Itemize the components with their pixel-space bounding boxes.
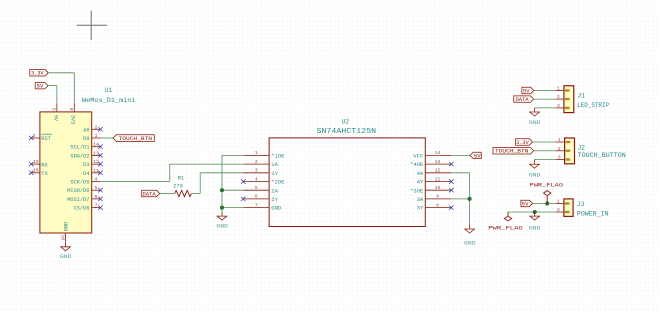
svg-text:SCL/D1: SCL/D1 — [70, 145, 89, 151]
U1 pin 2 (A0) — [83, 124, 102, 133]
junction on J3 pin1 wire — [545, 201, 549, 205]
svg-text:8: 8 — [436, 202, 439, 208]
J1 pin 2 — [555, 94, 564, 100]
wire DATA label to J1 pin 2 — [534, 98, 555, 100]
svg-text:CS/D8: CS/D8 — [74, 206, 90, 212]
svg-text:LED_STRIP: LED_STRIP — [577, 102, 609, 109]
U2 pin 1 (*1OE) — [243, 150, 285, 159]
svg-text:TX: TX — [41, 171, 48, 177]
global label DATA (R1) — [142, 190, 160, 197]
svg-text:6: 6 — [255, 194, 258, 200]
svg-text:2: 2 — [557, 94, 560, 100]
svg-text:2: 2 — [95, 124, 98, 130]
svg-text:5V: 5V — [523, 88, 530, 94]
wire U2 *1OE to ground rail — [222, 155, 243, 211]
svg-text:D3: D3 — [83, 162, 89, 168]
power label 3.3V (U1) — [30, 70, 49, 77]
J2 pin 1 — [556, 137, 565, 143]
junction on J3 pin2 wire — [533, 210, 537, 214]
svg-text:2: 2 — [558, 146, 561, 152]
U1 pin 6 (MOSI/D7) — [67, 194, 102, 203]
wire 5V label to J1 pin 1 — [534, 90, 555, 92]
ground symbol below U2 right rail — [465, 225, 475, 233]
J3 pin 1 — [556, 199, 564, 205]
svg-text:*1OE: *1OE — [271, 153, 285, 160]
svg-text:GND: GND — [529, 226, 541, 232]
connector J1 body — [564, 86, 574, 113]
J2 value TOUCH_BUTTON — [578, 152, 627, 159]
R1 value 279 — [173, 183, 183, 189]
wire TOUCH_BTN label to J2 pin 2 — [534, 150, 556, 152]
wire U2 4A down to ground — [451, 173, 469, 225]
U1 pin 7 (CS/D8) — [74, 203, 103, 212]
svg-text:2A: 2A — [271, 187, 278, 194]
svg-text:8: 8 — [69, 108, 75, 111]
J2 pin 3 — [556, 155, 565, 161]
svg-text:WeMos_D1_mini: WeMos_D1_mini — [82, 97, 136, 104]
junction at 3A rail — [468, 197, 472, 201]
ground symbol below J2 — [530, 160, 540, 169]
resistor R1 — [175, 190, 192, 196]
svg-text:TOUCH_BTN: TOUCH_BTN — [495, 149, 529, 155]
power port GND (J1) — [529, 120, 541, 126]
svg-text:2: 2 — [255, 159, 258, 165]
power port GND (J3) — [529, 226, 541, 232]
svg-text:1A: 1A — [271, 161, 278, 168]
svg-text:D0: D0 — [83, 136, 89, 142]
ground symbol below U1 — [61, 242, 71, 251]
svg-text:10: 10 — [60, 235, 66, 241]
svg-text:U1: U1 — [105, 87, 113, 94]
svg-text:5: 5 — [95, 185, 98, 191]
power label 3.3V (J2) — [516, 139, 533, 146]
svg-text:279: 279 — [173, 183, 183, 189]
svg-text:D4: D4 — [83, 171, 89, 177]
power port GND (U2 left rail) — [216, 223, 228, 229]
svg-text:5V: 5V — [52, 115, 58, 122]
J2 reference J2 — [578, 145, 586, 152]
U2 pin 2 (1A) — [243, 159, 278, 168]
svg-text:PWR_FLAG: PWR_FLAG — [530, 182, 564, 188]
svg-text:POWER_IN: POWER_IN — [577, 211, 609, 218]
power label 5V (J1) — [522, 87, 534, 94]
svg-text:1Y: 1Y — [271, 170, 278, 177]
U1 pin 12 (D3) — [83, 159, 102, 168]
svg-text:1: 1 — [557, 86, 560, 92]
U2 pin 3 (1Y) — [243, 168, 278, 177]
wire U2 VCC to 5V label — [451, 154, 470, 156]
svg-text:1: 1 — [255, 150, 258, 156]
U1 pin 10 (GND) bottom — [60, 222, 70, 242]
svg-text:3.3V: 3.3V — [31, 71, 44, 77]
wire J1 pin 3 to ground — [535, 107, 556, 109]
U2 pin 11 (4Y) — [417, 176, 454, 185]
U1 reference U1 — [105, 87, 113, 94]
J1 pin 3 — [555, 103, 564, 109]
svg-text:*3OE: *3OE — [410, 187, 424, 194]
svg-text:SCK/D5: SCK/D5 — [70, 180, 89, 186]
svg-text:A0: A0 — [83, 127, 89, 133]
svg-text:3V3: 3V3 — [70, 115, 76, 125]
connector J2 body — [565, 138, 575, 164]
ground symbol below U2 left rail — [217, 212, 227, 220]
svg-text:PWR_FLAG: PWR_FLAG — [488, 226, 523, 232]
svg-text:5V: 5V — [522, 201, 529, 207]
svg-text:1: 1 — [557, 199, 560, 205]
U2 reference U2 — [342, 118, 350, 125]
svg-text:3: 3 — [557, 103, 560, 109]
wire J3 pin 2 to GND and PWR_FLAG — [508, 212, 556, 216]
connector J3 body — [564, 199, 573, 217]
wire 5V to U1 5V pin — [48, 86, 57, 104]
J1 pin 1 — [555, 86, 564, 92]
svg-text:*2OE: *2OE — [271, 179, 285, 186]
svg-text:GND: GND — [271, 205, 282, 212]
svg-text:MISO/D6: MISO/D6 — [67, 188, 89, 194]
U2 pin 4 (*2OE) — [241, 176, 285, 185]
svg-text:GND: GND — [529, 172, 541, 178]
svg-text:*4OE: *4OE — [410, 161, 424, 168]
U2 pin 8 (3Y) — [417, 202, 454, 211]
U2 pin 7 (GND) — [243, 202, 282, 211]
svg-text:TOUCH_BUTTON: TOUCH_BUTTON — [578, 152, 627, 159]
U1 pin 16 (TX) with no-connect — [29, 168, 48, 177]
svg-text:J3: J3 — [577, 201, 585, 208]
U2 pin 5 (2A) — [243, 185, 278, 194]
svg-text:U2: U2 — [342, 118, 350, 125]
U1 value WeMos_D1_mini — [82, 97, 136, 104]
U2 pin 6 (2Y) — [241, 194, 279, 203]
PWR_FLAG text (GND) — [488, 226, 523, 232]
U1 pin 14 (SCL/D1) — [70, 142, 102, 151]
PWR_FLAG text (5V) — [530, 182, 564, 188]
U1 pin 4 (SCK/D5) — [70, 177, 100, 186]
U1 pin 11 (D4) — [83, 168, 102, 177]
svg-text:SDA/D2: SDA/D2 — [70, 153, 89, 159]
power port GND (J2) — [529, 172, 541, 178]
svg-text:R1: R1 — [178, 176, 184, 182]
J2 pin 2 — [556, 146, 565, 152]
wire U1 SCK/D5 to U2 1A — [100, 164, 243, 181]
U2 pin 13 (*4OE) — [410, 159, 453, 168]
wire U2 GND pin to ground rail — [222, 207, 243, 209]
wire R1 to U2 1Y — [191, 173, 243, 194]
svg-text:9: 9 — [436, 194, 439, 200]
svg-text:J1: J1 — [578, 93, 586, 100]
svg-text:7: 7 — [95, 203, 98, 209]
svg-text:4: 4 — [95, 177, 98, 183]
svg-text:RST: RST — [41, 136, 51, 142]
svg-text:GND: GND — [216, 223, 228, 229]
U1 pin 5 (MISO/D6) — [67, 185, 102, 194]
svg-text:14: 14 — [435, 150, 441, 156]
svg-text:11: 11 — [435, 176, 441, 182]
wire J2 pin 3 to ground — [534, 159, 556, 161]
U2 value SN74AHCT125N — [317, 128, 377, 136]
U1 pin 15 (RX) with no-connect — [29, 159, 48, 168]
R1 reference label — [178, 176, 184, 182]
power port GND (U1) — [60, 254, 72, 260]
svg-text:DATA: DATA — [516, 97, 529, 103]
svg-text:5V: 5V — [37, 84, 44, 90]
svg-text:4Y: 4Y — [417, 179, 424, 186]
junction at GND rail — [220, 206, 224, 210]
svg-text:MOSI/D7: MOSI/D7 — [67, 197, 89, 203]
power label 5V (U1) — [35, 82, 48, 89]
wire 3.3V label to J2 pin 1 — [533, 141, 557, 143]
svg-text:1: 1 — [95, 133, 98, 139]
svg-text:15: 15 — [33, 159, 39, 165]
svg-text:3: 3 — [558, 155, 561, 161]
wire 5V label to J3 pin 1 — [533, 203, 556, 205]
wire 3.3V to U1 3V3 pin — [48, 73, 74, 103]
wire U2 2A to ground rail — [222, 189, 243, 191]
svg-text:2: 2 — [557, 207, 560, 213]
U1 pin 13 (SDA/D2) — [70, 150, 102, 159]
svg-text:13: 13 — [435, 159, 441, 165]
svg-text:2Y: 2Y — [271, 196, 278, 203]
svg-text:3.3V: 3.3V — [516, 140, 529, 146]
J1 value LED_STRIP — [577, 102, 609, 109]
svg-text:7: 7 — [255, 202, 258, 208]
svg-text:3A: 3A — [417, 196, 424, 203]
power label 5V (U2 VCC) — [470, 152, 481, 159]
global label DATA (J1) — [514, 96, 534, 103]
U2 pin 12 (4A) — [417, 168, 452, 177]
ESP8266 module U1 body — [40, 112, 92, 233]
svg-text:TOUCH_BTN: TOUCH_BTN — [119, 136, 153, 142]
svg-text:VCC: VCC — [413, 153, 424, 160]
svg-text:4: 4 — [255, 176, 258, 182]
svg-text:GND: GND — [60, 254, 72, 260]
ground symbol below J3 pin2 — [530, 212, 540, 220]
global label TOUCH_BTN (U1 D0) — [113, 135, 154, 142]
U2 pin 9 (3A) — [417, 194, 452, 203]
svg-text:3Y: 3Y — [417, 205, 424, 212]
J3 reference J3 — [577, 201, 585, 208]
wire DATA label to R1 — [160, 193, 175, 195]
U1 pin 1 (D0) — [83, 133, 100, 142]
svg-text:5: 5 — [255, 185, 258, 191]
J1 reference J1 — [578, 93, 586, 100]
wire U1 D0 to TOUCH_BTN label — [100, 137, 113, 139]
junction at *1OE/2A rail — [220, 188, 224, 192]
svg-text:5V: 5V — [474, 153, 481, 159]
svg-text:GND: GND — [529, 120, 541, 126]
power flag PWR_FLAG (5V) — [544, 191, 551, 204]
power flag PWR_FLAG (GND) symbol — [504, 212, 511, 221]
U2 pin 10 (*3OE) — [410, 185, 453, 194]
cursor crosshair — [77, 11, 107, 40]
U2 pin 14 (VCC) — [413, 150, 451, 159]
svg-text:4A: 4A — [417, 170, 424, 177]
buffer IC U2 body — [269, 138, 425, 227]
U1 pin 3 (RST) with no-connect — [29, 133, 52, 142]
svg-text:1: 1 — [558, 137, 561, 143]
U1 pin 8 (3V3) top — [69, 103, 76, 124]
svg-text:12: 12 — [435, 168, 441, 174]
global label TOUCH_BTN (J2) — [493, 147, 534, 154]
svg-text:10: 10 — [435, 185, 441, 191]
J3 value POWER_IN — [577, 211, 609, 218]
svg-text:3: 3 — [255, 168, 258, 174]
svg-text:SN74AHCT125N: SN74AHCT125N — [317, 128, 377, 136]
svg-text:6: 6 — [95, 194, 98, 200]
power label 5V (J3) — [521, 200, 533, 207]
svg-text:9: 9 — [51, 108, 57, 111]
svg-text:16: 16 — [33, 168, 39, 174]
svg-text:DATA: DATA — [143, 191, 156, 197]
svg-text:GND: GND — [464, 240, 476, 246]
wire U2 3A to rail — [451, 198, 469, 200]
svg-text:GND: GND — [64, 222, 70, 232]
J3 pin 2 — [556, 207, 564, 213]
svg-text:J2: J2 — [578, 145, 586, 152]
U1 pin 9 (5V) top — [51, 103, 58, 122]
power port GND (U2 right rail) — [464, 240, 476, 246]
ground symbol below J1 — [530, 108, 540, 116]
svg-text:RX: RX — [41, 162, 48, 168]
